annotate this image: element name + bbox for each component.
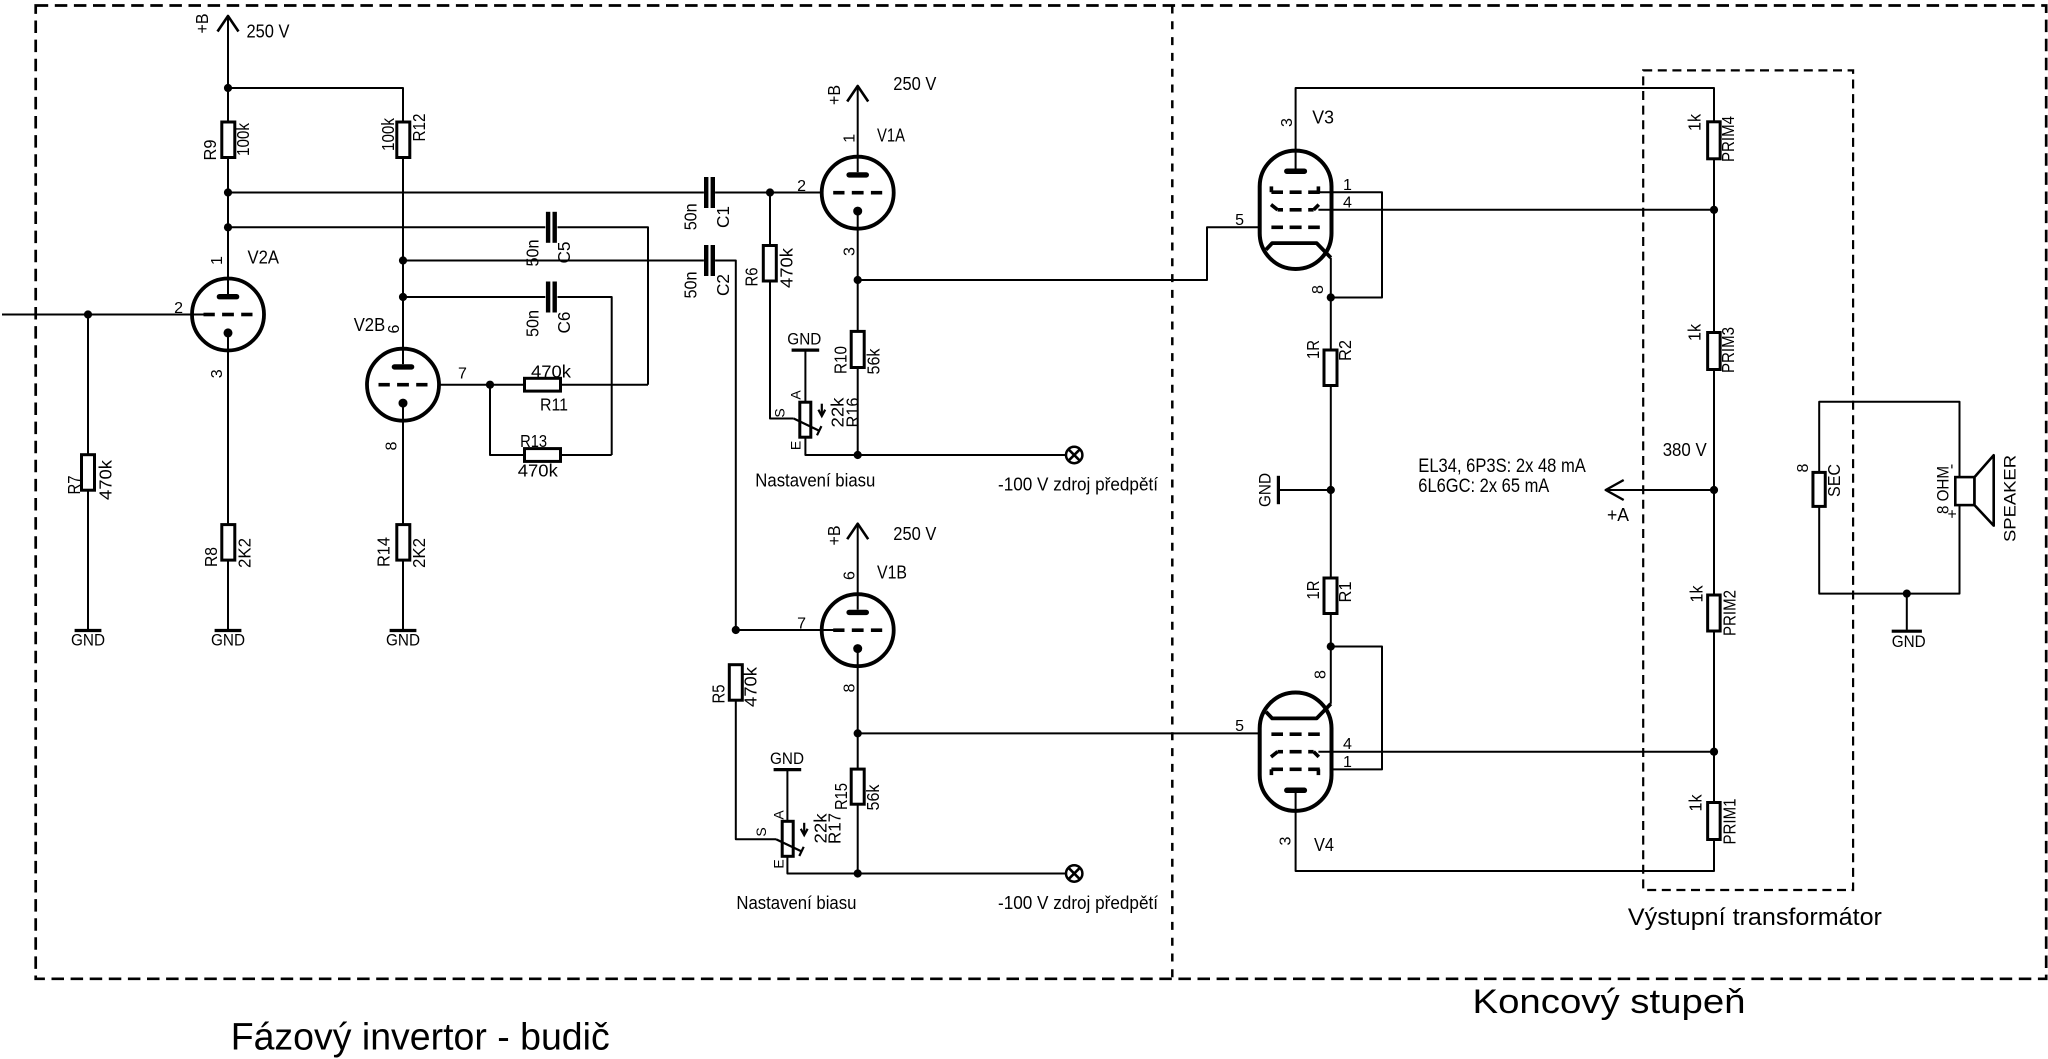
resistor PRIM2 <box>1686 585 1739 636</box>
wire: R5 bottom to pot R17 wiper <box>736 700 776 840</box>
svg-text:R12: R12 <box>409 114 429 142</box>
svg-text:-: - <box>1943 464 1960 469</box>
svg-text:GND: GND <box>386 632 420 650</box>
wire: R2 bottom through GND junction to R1 <box>1330 386 1332 579</box>
triode V1B <box>822 594 894 666</box>
svg-text:R16: R16 <box>842 398 862 428</box>
wire: V4 pin 4 to transformer junction <box>1318 751 1714 753</box>
node: V3 cathode junction <box>1327 293 1335 301</box>
node: speaker ground junction <box>1903 590 1911 598</box>
wire: line to C5 <box>228 226 545 228</box>
svg-text:R11: R11 <box>540 395 568 415</box>
ground (R16 top) <box>787 330 821 350</box>
svg-text:EL34, 6P3S: 2x 48 mA: EL34, 6P3S: 2x 48 mA <box>1418 455 1586 477</box>
wire: junction to V3 grid pin 5 <box>858 227 1260 280</box>
resistor SEC <box>1795 463 1844 506</box>
capacitor C5 <box>523 212 574 267</box>
svg-text:-100 V zdroj předpětí: -100 V zdroj předpětí <box>998 474 1158 494</box>
bias supply connector (bottom) <box>1066 865 1082 881</box>
ground (speaker) <box>1892 631 1926 651</box>
svg-text:E: E <box>788 441 804 450</box>
wire: C6 to corner down to R13 <box>558 297 612 455</box>
wire: R14 to ground <box>402 560 404 629</box>
svg-text:C2: C2 <box>713 274 733 296</box>
wire: V2B cathode to R14 <box>402 421 404 525</box>
wire: GND to pot R17 terminal A <box>786 771 788 821</box>
svg-text:C5: C5 <box>554 242 574 264</box>
wire: R13 right to corner <box>560 454 612 456</box>
svg-text:Koncový stupeň: Koncový stupeň <box>1473 983 1746 1021</box>
resistor PRIM3 <box>1685 324 1739 373</box>
wire: pot E to bias rail <box>805 437 1065 455</box>
svg-text:4: 4 <box>1343 736 1352 753</box>
wire: PRIM2 to PRIM1 <box>1713 631 1715 803</box>
resistor R13 <box>518 431 561 481</box>
svg-text:3: 3 <box>842 247 859 256</box>
dashed box: output transformer <box>1643 70 1853 890</box>
svg-text:6: 6 <box>842 571 859 580</box>
node: pin7/R11/R13 junction <box>486 381 494 389</box>
capacitor C6 <box>523 282 574 338</box>
svg-text:56k: 56k <box>864 348 884 374</box>
resistor R14 <box>373 525 429 568</box>
svg-text:R7: R7 <box>64 476 84 495</box>
svg-text:1: 1 <box>842 134 859 143</box>
resistor PRIM4 <box>1685 114 1738 162</box>
svg-text:380 V: 380 V <box>1663 440 1707 460</box>
wire: V2A grid stub <box>193 314 204 316</box>
ground (R7) <box>71 631 105 650</box>
svg-text:GND: GND <box>1892 633 1926 651</box>
wire: line to C1 <box>228 192 704 194</box>
wire: V3 pin 4 to transformer junction <box>1318 209 1714 211</box>
svg-text:R5: R5 <box>708 685 728 704</box>
power +B arrow (V1A) <box>847 86 868 102</box>
node: junction to C5 line <box>224 223 232 231</box>
svg-text:3: 3 <box>1278 836 1295 845</box>
node: junction to C6 line <box>399 293 407 301</box>
svg-text:250 V: 250 V <box>893 74 936 94</box>
svg-text:R9: R9 <box>200 140 220 161</box>
svg-text:5: 5 <box>1235 718 1244 735</box>
svg-text:Nastavení biasu: Nastavení biasu <box>736 893 856 913</box>
svg-text:1k: 1k <box>1686 794 1706 811</box>
wire: +A arrow stem <box>1606 489 1714 491</box>
svg-text:C1: C1 <box>713 206 733 228</box>
ground (R8) <box>211 631 245 650</box>
wire: V4 anode pin 3 to transformer PRIM1 <box>1296 790 1714 871</box>
wire: GND bar to junction <box>1280 489 1331 491</box>
wire: SEC bottom loop <box>1819 505 1959 593</box>
wire: V2B grid pin 7 to R11 <box>440 384 524 386</box>
svg-text:V1A: V1A <box>877 126 905 146</box>
triode V2B <box>367 349 439 421</box>
wire: GND to pot R16 terminal A <box>804 352 806 403</box>
svg-text:V2A: V2A <box>248 248 280 268</box>
svg-text:6L6GC: 2x 65 mA: 6L6GC: 2x 65 mA <box>1418 475 1549 497</box>
node: bias rail junction (bottom) <box>854 869 862 877</box>
svg-text:Výstupní transformátor: Výstupní transformátor <box>1628 904 1882 931</box>
svg-text:GND: GND <box>787 330 821 348</box>
svg-text:3: 3 <box>209 369 226 378</box>
svg-text:S: S <box>753 827 769 836</box>
resistor R12 <box>378 114 429 158</box>
power +A arrow (center tap) <box>1606 480 1629 525</box>
svg-text:R2: R2 <box>1335 340 1355 361</box>
svg-text:R13: R13 <box>520 431 547 451</box>
node: grid/R5 junction <box>732 626 740 634</box>
resistor R6 <box>741 246 796 289</box>
resistor R11 <box>525 362 572 415</box>
node: PRIM2/PRIM1 junction (V4 pin4 tap) <box>1710 748 1718 756</box>
svg-text:Fázový invertor - budič: Fázový invertor - budič <box>231 1017 610 1059</box>
svg-text:R17: R17 <box>825 813 845 844</box>
svg-text:5: 5 <box>1235 212 1244 229</box>
svg-text:+A: +A <box>1607 505 1629 525</box>
resistor R8 <box>201 525 254 568</box>
svg-text:A: A <box>771 810 787 820</box>
svg-text:1R: 1R <box>1303 340 1323 359</box>
svg-text:2: 2 <box>174 300 183 317</box>
wire: C1 to V1A grid <box>715 192 834 194</box>
wire: V4 cathode pin 8 stub <box>1330 647 1332 704</box>
wire: V1B cathode down through junction to R15 <box>857 666 859 769</box>
pentode V3 <box>1260 151 1332 269</box>
node: +B bus junction <box>224 84 232 92</box>
capacitor C1 <box>680 177 733 230</box>
triode V1A <box>822 157 894 229</box>
svg-text:E: E <box>771 859 787 868</box>
capacitor C2 <box>680 245 733 299</box>
wire: V1A cathode down through junction to R10 <box>857 229 859 332</box>
power +B arrow (V1B) <box>847 524 868 540</box>
node: cathode junction (V1B) <box>854 729 862 737</box>
svg-text:100k: 100k <box>378 118 398 151</box>
svg-text:V4: V4 <box>1314 835 1334 855</box>
triode V2A <box>192 279 264 351</box>
resistor PRIM1 <box>1686 794 1740 844</box>
node: C1/R6/grid junction <box>766 188 774 196</box>
svg-text:GND: GND <box>1257 473 1275 507</box>
resistor R5 <box>708 665 760 707</box>
wire: C2 to corner down to V1B grid <box>715 261 736 631</box>
wire: input line to V2A grid <box>2 314 193 316</box>
svg-text:100k: 100k <box>233 123 253 156</box>
svg-text:8: 8 <box>1310 285 1327 294</box>
resistor R9 <box>200 122 253 161</box>
pentode V4 <box>1260 693 1332 811</box>
node: bias rail junction <box>854 451 862 459</box>
ground (R17 top) <box>770 750 804 769</box>
wire: +B stem to R9 <box>227 16 229 122</box>
svg-text:56k: 56k <box>863 784 883 810</box>
svg-text:470k: 470k <box>95 460 115 500</box>
svg-text:470k: 470k <box>518 461 558 481</box>
resistor R1 <box>1303 578 1355 614</box>
svg-text:V1B: V1B <box>877 563 907 583</box>
svg-text:-100 V zdroj předpětí: -100 V zdroj předpětí <box>998 893 1158 913</box>
node: PRIM4/PRIM3 junction (V3 pin4 tap) <box>1710 206 1718 214</box>
wire: C5 to corner down to R11 <box>558 227 649 384</box>
node: input / R7 junction <box>84 310 92 318</box>
svg-text:1k: 1k <box>1685 114 1705 131</box>
svg-text:+B: +B <box>192 14 212 34</box>
node: junction to C1 line <box>224 188 232 196</box>
wire: V2A cathode to R8 <box>227 351 229 525</box>
svg-text:1R: 1R <box>1303 581 1323 600</box>
svg-text:3: 3 <box>1279 118 1296 127</box>
svg-text:2: 2 <box>797 178 806 195</box>
svg-text:C6: C6 <box>554 312 574 334</box>
wire: +B stem to V1A anode <box>857 86 859 157</box>
wire: V3 cathode pin 8 down to R2 <box>1330 258 1332 350</box>
wire: ground stub <box>1906 594 1908 630</box>
wire: +B stem to V1B anode <box>857 524 859 595</box>
svg-text:R6: R6 <box>741 268 761 287</box>
svg-text:PRIM1: PRIM1 <box>1720 799 1740 845</box>
wire: V3 anode pin 3 to transformer PRIM4 <box>1296 88 1714 171</box>
wire: SEC top loop <box>1819 402 1959 477</box>
resistor R10 <box>830 331 883 374</box>
svg-text:GND: GND <box>71 632 105 650</box>
svg-text:R10: R10 <box>830 346 850 374</box>
svg-text:R1: R1 <box>1335 582 1355 603</box>
svg-text:V3: V3 <box>1312 108 1334 128</box>
svg-text:+B: +B <box>824 526 844 546</box>
node: center tap junction <box>1710 486 1718 494</box>
svg-text:V2B: V2B <box>354 315 386 335</box>
wire: pot E to bias rail <box>787 856 1065 873</box>
wire: V3 pin 1 loop to cathode junction <box>1318 192 1382 297</box>
svg-text:470k: 470k <box>531 362 571 382</box>
svg-text:2K2: 2K2 <box>234 538 254 568</box>
svg-text:8 OHM: 8 OHM <box>1935 466 1953 514</box>
svg-text:1: 1 <box>1343 754 1352 771</box>
wire: line to C6 <box>403 296 545 298</box>
wire: junction to V4 grid pin 5 <box>858 732 1260 734</box>
wire: R15 bottom to bias rail <box>857 804 859 873</box>
power +B arrow (left) <box>218 16 239 32</box>
speaker SPEAKER <box>1935 455 2020 542</box>
node: V4 cathode junction <box>1327 642 1335 650</box>
wire: R11 right to corner <box>561 384 649 386</box>
wire: R12 bottom to V2B anode pin 6 <box>402 158 404 349</box>
wire: junction down to R6 <box>769 193 771 246</box>
svg-text:GND: GND <box>770 750 804 768</box>
wire: V1B grid from C2 line <box>736 629 834 631</box>
wire: R7 top <box>87 315 89 455</box>
wire: PRIM3 to PRIM2 (center tap) <box>1713 370 1715 596</box>
wire: R10 bottom to bias rail <box>857 368 859 456</box>
svg-text:Nastavení biasu: Nastavení biasu <box>755 471 875 491</box>
wire: R9 bottom to V2A anode pin 1 <box>227 158 229 279</box>
wire: R1 bottom to V4 cathode junction <box>1330 614 1332 647</box>
svg-text:A: A <box>788 390 804 400</box>
ground (cathode, rotated) <box>1257 473 1279 507</box>
svg-text:PRIM4: PRIM4 <box>1718 116 1738 162</box>
svg-text:GND: GND <box>211 632 245 650</box>
potentiometer R16 <box>772 390 863 451</box>
svg-text:470k: 470k <box>741 667 761 707</box>
svg-text:+: + <box>1945 509 1962 518</box>
dashed divider between sections <box>1171 6 1174 979</box>
svg-text:SEC: SEC <box>1824 464 1844 497</box>
svg-text:7: 7 <box>458 366 467 383</box>
wire: junction down to R13 <box>490 385 526 455</box>
resistor R2 <box>1303 340 1355 386</box>
wire: R7 to ground <box>87 490 89 629</box>
svg-text:PRIM2: PRIM2 <box>1720 590 1740 636</box>
svg-text:+B: +B <box>824 85 844 105</box>
svg-text:R14: R14 <box>373 537 393 567</box>
svg-text:8: 8 <box>842 683 859 692</box>
wire: +B bus to R12 <box>228 88 403 122</box>
wire: line to C2 <box>403 260 704 262</box>
svg-text:250 V: 250 V <box>893 524 936 544</box>
svg-text:470k: 470k <box>776 248 796 288</box>
node: GND junction <box>1327 486 1335 494</box>
wire: R6 bottom to pot R16 wiper <box>770 281 794 419</box>
resistor R15 <box>831 769 883 810</box>
svg-text:50n: 50n <box>680 272 700 299</box>
wire: V4 pin 1 loop <box>1318 647 1382 770</box>
wire: PRIM4 to PRIM3 <box>1713 159 1715 333</box>
svg-text:50n: 50n <box>523 310 543 337</box>
wire: R8 to ground <box>227 560 229 629</box>
svg-text:2K2: 2K2 <box>409 538 429 568</box>
ground (R14) <box>386 631 420 650</box>
svg-text:PRIM3: PRIM3 <box>1718 327 1738 373</box>
svg-text:SPEAKER: SPEAKER <box>2000 455 2019 542</box>
svg-text:1k: 1k <box>1686 585 1706 602</box>
svg-text:50n: 50n <box>523 240 543 267</box>
svg-text:S: S <box>772 408 788 417</box>
svg-text:8: 8 <box>384 441 401 450</box>
svg-text:250 V: 250 V <box>247 22 290 42</box>
svg-text:R15: R15 <box>831 783 851 810</box>
svg-text:1k: 1k <box>1685 324 1705 341</box>
svg-text:8: 8 <box>1795 463 1812 472</box>
node: junction to C2 line <box>399 256 407 264</box>
potentiometer R17 <box>753 810 844 869</box>
node: cathode junction <box>854 276 862 284</box>
svg-text:R8: R8 <box>201 547 221 567</box>
svg-text:1: 1 <box>209 256 226 265</box>
bias supply connector (top) <box>1066 447 1082 463</box>
resistor R7 <box>64 455 115 500</box>
svg-text:6: 6 <box>386 324 403 333</box>
svg-text:50n: 50n <box>680 203 700 230</box>
svg-text:8: 8 <box>1313 670 1330 679</box>
